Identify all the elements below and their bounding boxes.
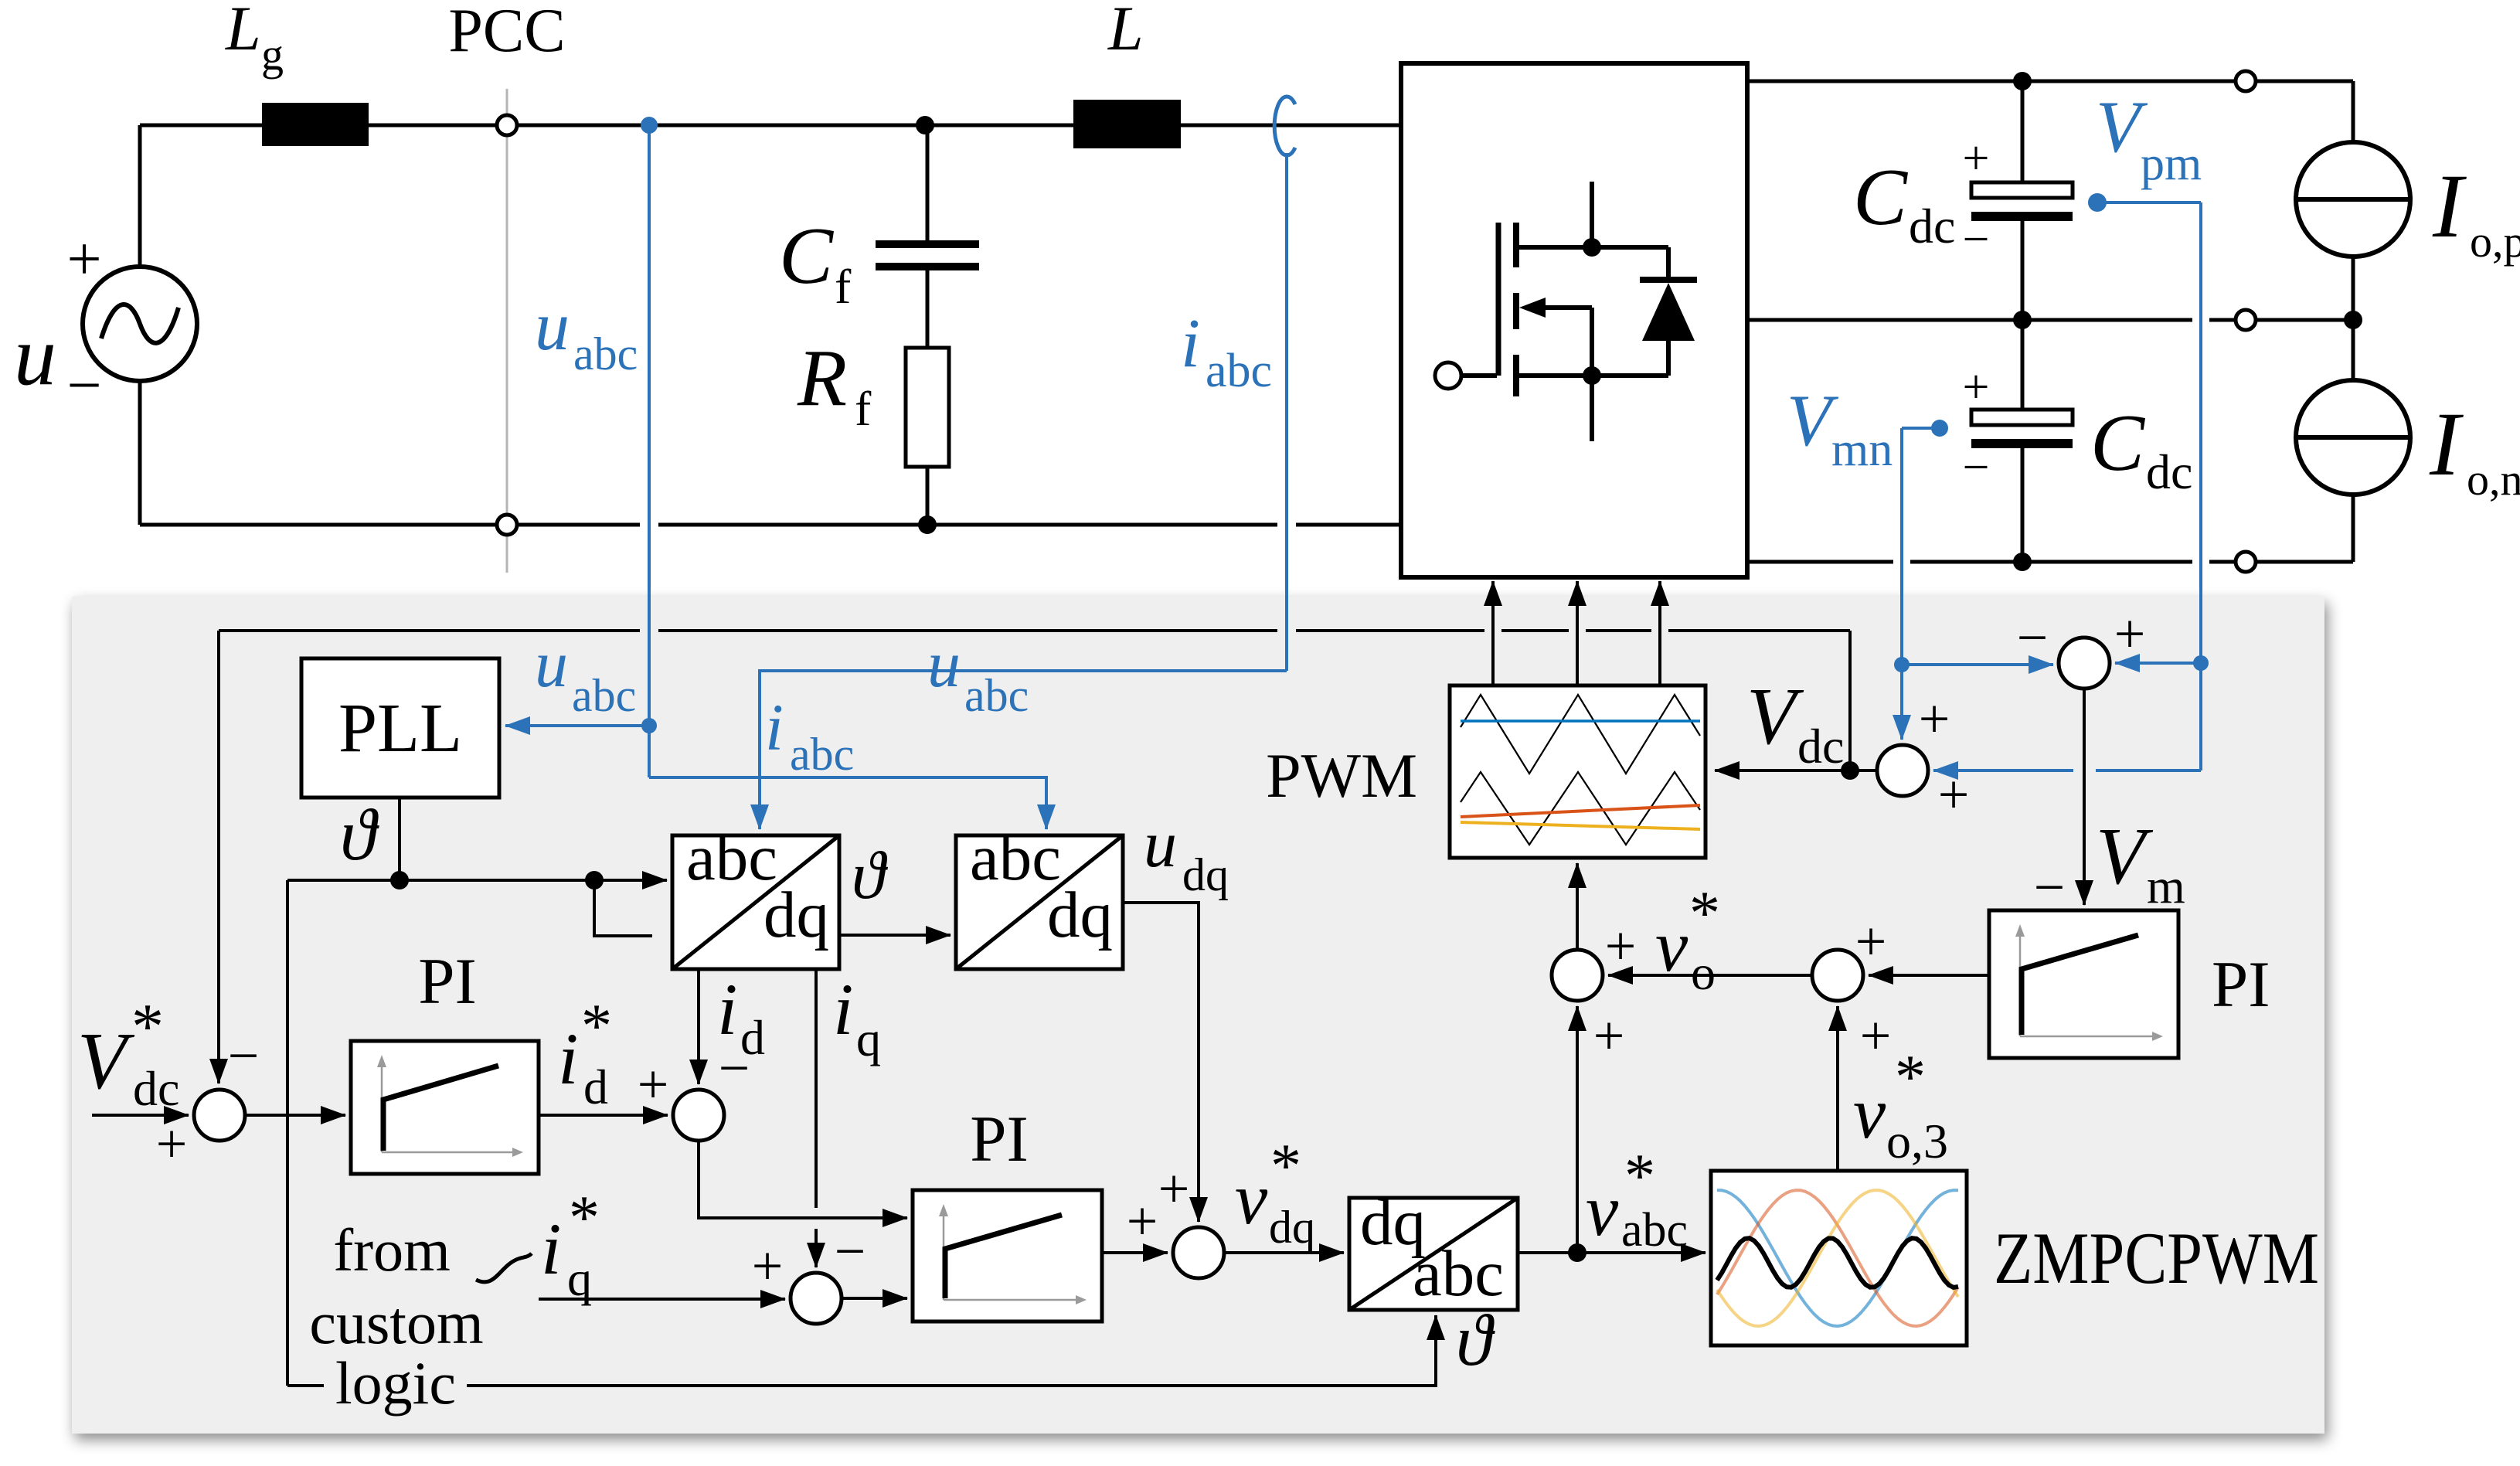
svg-text:o,p: o,p [2470, 216, 2520, 267]
wire i_d from transform [697, 969, 700, 1084]
svg-text:v: v [1655, 905, 1689, 987]
svg-text:u: u [535, 288, 570, 365]
wire i*q input [539, 1298, 785, 1301]
source wire [1516, 373, 1668, 378]
PLL box [301, 658, 499, 798]
svg-text:−: − [228, 1025, 260, 1087]
svg-text:u: u [1144, 807, 1177, 881]
wire PI4 output to sumB [1869, 974, 1989, 977]
PI graph curve [2022, 935, 2138, 1035]
summing junction A (v*o) [1552, 950, 1603, 1001]
resistor Rf [906, 348, 949, 467]
svg-text:u: u [535, 627, 568, 701]
svg-text:C: C [1853, 151, 1909, 242]
node u_abc to PLL [641, 718, 657, 733]
svg-text:abc: abc [964, 670, 1029, 721]
diode anode wire [1666, 341, 1671, 376]
node Vpm branch [2193, 655, 2209, 671]
svg-text:abc: abc [790, 729, 854, 780]
PI graph curve [945, 1215, 1062, 1298]
svg-text:o,3: o,3 [1886, 1114, 1948, 1168]
wire i_abc across and down into abc-dq [760, 671, 1287, 829]
terminal DC mid output [2236, 310, 2256, 330]
node Rf bottom junction [918, 515, 937, 534]
svg-text:+: + [1593, 1005, 1625, 1066]
svg-text:L: L [225, 0, 261, 63]
wire theta stub into transform lower [594, 880, 652, 936]
wire sum3 to PI3 [842, 1297, 907, 1300]
PCC dashed boundary line [506, 89, 508, 573]
svg-text:dq: dq [763, 879, 829, 951]
svg-text:+: + [1860, 1005, 1892, 1066]
svg-text:f: f [835, 259, 852, 314]
svg-text:mn: mn [1831, 423, 1893, 476]
summing junction 2 (d current) [673, 1090, 724, 1141]
summing junction 4 (feedforward) [1173, 1227, 1224, 1278]
node source [1583, 366, 1601, 385]
source stub down [1590, 376, 1594, 441]
node v*abc [1568, 1243, 1586, 1262]
svg-text:o,n: o,n [2467, 454, 2520, 505]
PI graph curve [383, 1066, 498, 1151]
wire theta bottom run [467, 1315, 1436, 1386]
svg-text:f: f [855, 381, 872, 436]
svg-text:PI: PI [418, 945, 477, 1018]
node Vmn branch [1894, 657, 1910, 672]
transistor body arrow [1542, 305, 1592, 310]
svg-text:i: i [558, 1018, 578, 1100]
wire Vmn measurement down [1900, 428, 1903, 665]
current source Io,p [2296, 142, 2410, 257]
svg-text:o: o [1691, 945, 1716, 1000]
diode cathode bar [1640, 277, 1697, 283]
PWM gate signals to converter [1491, 581, 1495, 685]
svg-text:−: − [1963, 441, 1990, 494]
svg-text:*: * [1895, 1043, 1926, 1111]
AC source u [83, 267, 197, 381]
node drain [1583, 238, 1601, 257]
svg-text:ZMPCPWM: ZMPCPWM [1994, 1217, 2319, 1299]
node DC link bottom [2013, 553, 2032, 571]
PWM box [1450, 685, 1706, 858]
PI graph axes [2019, 930, 2022, 1036]
wire v*abc output [1518, 1251, 1706, 1254]
transistor channel dashes [1513, 223, 1519, 267]
svg-text:PI: PI [970, 1103, 1029, 1175]
svg-text:dq: dq [1182, 849, 1229, 900]
svg-text:from: from [333, 1216, 451, 1284]
wire Vdc feedback long top line [219, 629, 640, 632]
svg-text:+: + [638, 1053, 669, 1115]
svg-text:pm: pm [2141, 138, 2202, 190]
wire DC negative rail [1747, 560, 1893, 564]
wire Vpm measurement down [2097, 201, 2201, 204]
transistor gate wire [1460, 373, 1497, 378]
diode D cathode connection [1666, 247, 1671, 280]
wire theta long drop to dq-abc [286, 880, 289, 1386]
node u_abc tap on top rail [641, 117, 658, 134]
ZMPCPWM sine blue [1717, 1190, 1958, 1326]
current source Io,n [2296, 380, 2410, 495]
svg-text:+: + [2114, 603, 2146, 665]
wire Vdc measurement into PWM [1715, 769, 1850, 772]
svg-text:PCC: PCC [448, 0, 565, 65]
wire u_dq feedforward [1123, 903, 1199, 1222]
ZMPCPWM box [1711, 1171, 1967, 1345]
transform box abc-dq for voltages [956, 835, 1123, 969]
svg-text:ϑ: ϑ [340, 794, 379, 876]
wire bottom AC rail [140, 523, 640, 527]
wire u_abc to abc-dq transform [649, 777, 1046, 829]
summing junction 3 (q current) [791, 1273, 842, 1324]
wire Vmn into sum5 [1900, 665, 1903, 740]
svg-text:+: + [1158, 1158, 1190, 1219]
svg-text:C: C [2090, 397, 2146, 488]
PI block 1 (dc voltage) [351, 1041, 539, 1174]
node DC link top [2013, 72, 2032, 90]
svg-text:+: + [752, 1235, 784, 1297]
PI block 3 (current) [913, 1190, 1102, 1321]
transistor gate terminal [1435, 362, 1461, 389]
wire Vdc feedback down to summing node [217, 631, 220, 1083]
svg-text:+: + [1963, 132, 1990, 185]
drain stub up [1590, 182, 1594, 247]
transform box dq-abc [1349, 1198, 1518, 1310]
wire theta from PLL [398, 798, 401, 880]
PCC terminal top [497, 115, 517, 135]
PI block 4 (balancing) [1989, 910, 2178, 1058]
svg-text:abc: abc [1621, 1204, 1688, 1257]
squiggle lead [476, 1253, 532, 1282]
wire Io,n to bottom rail [2352, 495, 2355, 562]
svg-text:V: V [1746, 671, 1804, 761]
PWM reference blue [1461, 719, 1700, 723]
svg-text:+: + [156, 1113, 188, 1175]
ZMPCPWM sine yellow [1717, 1190, 1958, 1326]
wire sum1 to PI1 [245, 1114, 345, 1117]
wire Vdc feedback right vertical [1848, 631, 1852, 770]
wire DC midpoint rail [1747, 318, 2192, 322]
wire left vertical from source [138, 125, 142, 268]
PI graph axes [381, 1061, 383, 1152]
wire Io,p to midpoint [2352, 257, 2355, 320]
svg-text:dq: dq [1047, 879, 1113, 951]
wire sumA up to PWM [1576, 863, 1579, 950]
node theta 2 [585, 871, 604, 889]
svg-text:L: L [1107, 0, 1144, 63]
inductor Lg [262, 103, 369, 146]
svg-text:V: V [77, 1015, 135, 1106]
svg-text:d: d [740, 1010, 765, 1065]
PWM reference yellow [1461, 822, 1700, 829]
ZMPCPWM third harmonic black [1717, 1238, 1958, 1287]
diode anode triangle [1642, 283, 1695, 341]
wire PI1 to sum2 i*d [539, 1114, 668, 1117]
svg-text:i: i [1181, 305, 1200, 382]
summing junction 1 (Vdc loop) [194, 1090, 245, 1141]
wire top AC rail [140, 124, 1401, 128]
wire PI3 to sum4 [1102, 1251, 1168, 1254]
wire Vpm into sum5 [2199, 663, 2202, 770]
wire i_q from transform [814, 969, 818, 1208]
ZMPCPWM sine orange [1717, 1190, 1958, 1326]
svg-text:d: d [583, 1060, 608, 1114]
svg-text:*: * [1689, 879, 1720, 947]
svg-text:logic: logic [335, 1349, 456, 1417]
PWM carrier lower [1461, 772, 1700, 845]
capacitor Cdc lower [2021, 320, 2025, 410]
summing junction 5 (Vdc = Vpm+Vmn) [1877, 745, 1928, 796]
svg-text:I: I [2429, 393, 2464, 495]
svg-text:q: q [856, 1012, 881, 1066]
svg-text:+: + [1938, 764, 1970, 825]
node DC midpoint [2013, 311, 2032, 329]
node Vmn tap [1931, 420, 1948, 437]
svg-text:I: I [2432, 155, 2467, 257]
svg-text:u: u [14, 308, 56, 403]
svg-text:dc: dc [2146, 444, 2192, 499]
terminal DC+ output [2236, 71, 2256, 91]
svg-text:ϑ: ϑ [852, 838, 889, 913]
capacitor Cdc upper [2021, 81, 2025, 182]
svg-text:i: i [717, 968, 737, 1050]
wire Vdc sum5 to node [1850, 769, 1877, 772]
svg-text:−: − [835, 1220, 866, 1282]
svg-text:*: * [1624, 1142, 1655, 1210]
source vertical [1590, 308, 1594, 376]
svg-text:R: R [797, 332, 847, 423]
wire Vmn to sum6 [1902, 663, 2053, 666]
svg-text:i: i [833, 968, 853, 1050]
wire Vm down to PI4 [2083, 689, 2086, 905]
svg-text:−: − [1963, 213, 1990, 266]
node Vpm tap [2088, 193, 2107, 212]
svg-text:v: v [1235, 1158, 1268, 1240]
svg-text:v: v [1853, 1072, 1886, 1154]
summing junction 6 (Vm) [2059, 638, 2110, 689]
svg-text:+: + [1963, 361, 1990, 413]
node right midpoint [2344, 311, 2362, 329]
summing junction B [1812, 950, 1863, 1001]
svg-text:abc: abc [1413, 1237, 1504, 1310]
wire Vpm into sum6 [2115, 662, 2201, 665]
inductor L [1073, 100, 1181, 148]
svg-text:m: m [2147, 859, 2185, 913]
wire v*o3 up to sumB [1836, 1006, 1839, 1171]
svg-text:−: − [2017, 607, 2049, 668]
transistor drain wire [1516, 245, 1668, 250]
svg-text:PI: PI [2212, 948, 2270, 1021]
svg-text:custom: custom [309, 1289, 483, 1356]
wire u_abc arrow into PLL [505, 724, 649, 727]
svg-text:−: − [66, 352, 101, 420]
wire sum4 to dq-abc [1224, 1251, 1344, 1254]
transistor gate bar [1496, 223, 1501, 376]
svg-text:+: + [1855, 910, 1887, 972]
svg-text:dc: dc [1797, 719, 1844, 774]
wire sumB to sumA [1608, 974, 1812, 977]
svg-text:abc: abc [572, 670, 636, 721]
PWM reference red [1461, 805, 1700, 817]
capacitor Cf [926, 125, 930, 240]
svg-text:*: * [131, 991, 164, 1063]
wire V*dc input [92, 1114, 189, 1117]
wire sum2 to PI3 (d loop) [699, 1141, 907, 1218]
wire to current source Io,p [2352, 81, 2355, 142]
svg-text:+: + [1919, 688, 1950, 750]
svg-text:g: g [261, 29, 284, 80]
svg-text:V: V [2096, 811, 2154, 901]
PCC terminal bottom [497, 515, 517, 535]
svg-text:dc: dc [1909, 199, 1955, 253]
node Cf branch top [916, 116, 934, 134]
node Vdc [1841, 761, 1859, 780]
svg-text:*: * [1270, 1132, 1301, 1200]
wire Vmn tap link [1902, 427, 1940, 430]
control-area gray panel [72, 597, 2324, 1434]
wire theta pass-through to second transform [839, 934, 951, 937]
svg-text:+: + [1127, 1190, 1158, 1252]
current sensor i_abc [1274, 97, 1295, 155]
svg-text:v: v [1586, 1169, 1619, 1251]
svg-text:dc: dc [133, 1061, 179, 1116]
svg-text:i: i [541, 1208, 561, 1290]
wire u_abc tap down [648, 125, 651, 777]
svg-text:PLL: PLL [338, 690, 462, 767]
node theta 1 [390, 871, 409, 889]
wire i_abc sensor down [1285, 153, 1288, 671]
svg-text:+: + [66, 226, 101, 294]
svg-text:*: * [581, 992, 612, 1060]
svg-text:+: + [1605, 915, 1637, 977]
wire v*abc up to sumA [1576, 1006, 1579, 1253]
wire midpoint to Io,n [2352, 320, 2355, 380]
PWM carrier upper [1461, 695, 1700, 774]
terminal DC- output [2236, 552, 2256, 572]
svg-text:dq: dq [1269, 1202, 1315, 1253]
svg-text:i: i [765, 690, 784, 764]
transform box abc-dq for currents [672, 835, 839, 969]
wire theta horizontal to abc-dq [287, 879, 667, 882]
svg-text:abc: abc [1206, 345, 1272, 397]
svg-text:*: * [569, 1184, 600, 1252]
svg-text:abc: abc [573, 328, 638, 379]
PI graph axes [943, 1210, 945, 1300]
wire DC positive rail [1747, 80, 2353, 83]
converter box [1401, 63, 1747, 577]
svg-text:PWM: PWM [1266, 740, 1417, 811]
svg-text:C: C [779, 210, 835, 301]
svg-text:u: u [927, 627, 961, 701]
